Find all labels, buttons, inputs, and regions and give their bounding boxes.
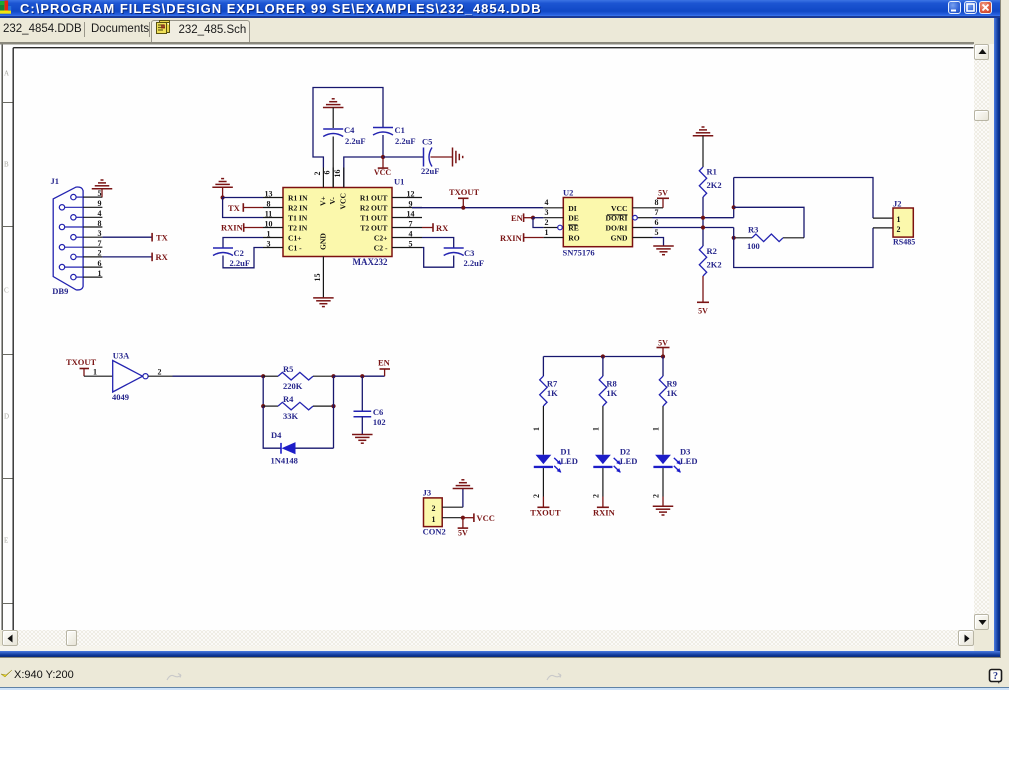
svg-text:8: 8 (655, 198, 659, 207)
svg-text:C5: C5 (422, 136, 432, 146)
svg-text:1N4148: 1N4148 (271, 455, 298, 465)
wire D3 down (662, 468, 664, 496)
svg-text:1K: 1K (606, 388, 617, 398)
ground at U2 GND (653, 237, 664, 245)
svg-text:5V: 5V (658, 338, 668, 347)
svg-text:R2: R2 (707, 246, 717, 256)
wire junction to pin11 (223, 197, 263, 217)
svg-text:3: 3 (545, 208, 549, 217)
U2 right pin stubs (633, 206, 653, 208)
svg-text:TXOUT: TXOUT (66, 357, 97, 367)
power 5V at U2 pin8 (653, 206, 664, 208)
svg-text:R1 OUT: R1 OUT (360, 193, 388, 202)
svg-text:U2: U2 (563, 187, 573, 197)
svg-text:LED: LED (680, 455, 697, 465)
svg-text:C6: C6 (373, 407, 383, 417)
connector J2 pin stubs (873, 217, 893, 219)
svg-text:2.2uF: 2.2uF (345, 136, 366, 146)
svg-text:1: 1 (652, 427, 661, 431)
junction R4 left (261, 404, 265, 408)
wire left branch down (262, 376, 264, 406)
U2 RE overline (568, 223, 577, 225)
LED D2 (595, 454, 611, 463)
svg-text:7: 7 (655, 208, 659, 217)
wire R7 to D1 (542, 406, 544, 455)
U3A bubble (143, 373, 148, 378)
capacitor C5 (423, 147, 425, 166)
svg-text:VCC: VCC (374, 168, 392, 177)
junction loop upper (732, 205, 736, 209)
svg-text:1: 1 (545, 227, 549, 236)
svg-text:2: 2 (432, 504, 436, 513)
svg-text:EN: EN (378, 357, 391, 367)
wire R2 to 5V (702, 276, 704, 302)
op-amp U1 MAX232 body (283, 187, 392, 256)
connector J1 pin circles left column (59, 204, 64, 209)
svg-text:U3A: U3A (113, 350, 130, 360)
svg-text:2.2uF: 2.2uF (230, 258, 251, 268)
wire right branch (333, 376, 335, 448)
U2 pin2 bubble (558, 225, 563, 230)
svg-text:5: 5 (98, 188, 102, 197)
wire J3 pin2 to ground (462, 488, 464, 507)
svg-text:1: 1 (267, 229, 271, 238)
svg-text:2: 2 (897, 225, 901, 234)
svg-text:RX: RX (436, 222, 449, 232)
svg-text:11: 11 (265, 209, 273, 218)
svg-text:4: 4 (98, 209, 102, 218)
status bar (0, 658, 1009, 687)
op-amp U2 SN75176 body (563, 197, 632, 246)
svg-text:5V: 5V (458, 528, 468, 537)
wire V+ loop top (313, 87, 383, 167)
U1 right pin stubs (392, 196, 422, 198)
wire rail to R8 (602, 356, 604, 376)
junction J3 pin1 (461, 515, 465, 519)
svg-text:C1+: C1+ (288, 233, 302, 242)
svg-text:100: 100 (747, 240, 760, 250)
svg-text:4049: 4049 (112, 392, 129, 402)
ground below D3 (662, 496, 664, 506)
svg-text:2: 2 (98, 248, 102, 257)
svg-text:DE: DE (568, 213, 579, 222)
ground at U1 pin 15 (313, 296, 334, 298)
svg-text:1: 1 (592, 427, 601, 431)
wire to D4 (263, 406, 281, 448)
svg-text:2: 2 (592, 494, 601, 498)
ground above J3 (453, 487, 474, 489)
wire C6 to ground (361, 416, 363, 434)
svg-text:D: D (4, 412, 9, 420)
svg-text:VCC: VCC (611, 203, 627, 212)
junction rail D3 (661, 354, 665, 358)
svg-text:C1: C1 (395, 125, 405, 135)
svg-text:3: 3 (98, 229, 102, 238)
svg-text:8: 8 (267, 199, 271, 208)
svg-text:7: 7 (409, 219, 413, 228)
svg-text:R3: R3 (748, 224, 758, 234)
LED D1 (536, 454, 552, 463)
port TX (151, 232, 153, 241)
junction at pin13 (221, 195, 225, 199)
svg-text:DO/RI: DO/RI (606, 223, 628, 232)
wire rail to R9 (662, 356, 664, 376)
svg-text:?: ? (993, 671, 998, 682)
wire U1 pin9 to U2 DI (412, 206, 543, 208)
connector J1 pin lines (83, 196, 102, 198)
svg-text:22uF: 22uF (421, 166, 439, 176)
wire J1 pin2 to RX (102, 255, 151, 257)
junction EN (531, 215, 535, 219)
wire VCC junction to C5 (383, 156, 424, 158)
svg-text:12: 12 (407, 189, 415, 198)
svg-text:1: 1 (432, 514, 436, 523)
svg-text:1: 1 (93, 367, 97, 376)
svg-text:8: 8 (98, 218, 102, 227)
svg-text:R7: R7 (547, 378, 558, 388)
svg-text:LED: LED (560, 455, 577, 465)
capacitor C1 (373, 126, 393, 128)
diode D4 (280, 442, 282, 453)
resistor R5 (263, 375, 278, 377)
svg-text:C1 -: C1 - (288, 243, 302, 252)
connector J3 body (424, 497, 443, 526)
junction R5 right (331, 374, 335, 378)
svg-text:R1: R1 (707, 166, 717, 176)
svg-text:4: 4 (409, 229, 413, 238)
svg-text:CON2: CON2 (423, 526, 446, 536)
svg-text:E: E (4, 536, 8, 544)
U1 top pin stubs (322, 167, 324, 187)
svg-text:1K: 1K (547, 388, 558, 398)
wire pin16 to VCC junction (344, 157, 383, 188)
svg-text:1: 1 (98, 268, 102, 277)
wire R5 to EN (334, 375, 385, 377)
svg-text:RXIN: RXIN (500, 232, 523, 242)
svg-text:RXIN: RXIN (593, 507, 616, 517)
wire loop top (734, 177, 873, 218)
svg-text:V+: V+ (318, 196, 327, 206)
svg-text:VCC: VCC (477, 513, 495, 523)
svg-text:R5: R5 (283, 364, 293, 374)
U1 left pin stubs (263, 196, 283, 198)
capacitor C6 (361, 376, 363, 411)
wire C5 to ground (431, 156, 453, 158)
svg-text:220K: 220K (283, 381, 303, 391)
ground above R1 (693, 134, 714, 136)
port VCC at J3 (463, 516, 474, 518)
svg-text:C3: C3 (464, 248, 474, 258)
svg-text:D4: D4 (271, 430, 282, 440)
svg-text:RO: RO (568, 233, 579, 242)
ground above TX junction (212, 186, 233, 188)
svg-text:RS485: RS485 (893, 237, 915, 246)
svg-text:D1: D1 (560, 446, 570, 456)
port RX at U1 (422, 226, 433, 228)
junction rail D2 (601, 354, 605, 358)
svg-text:J2: J2 (893, 198, 902, 208)
U2 left pin stubs (543, 206, 563, 208)
LED D3 (655, 454, 671, 463)
svg-text:2K2: 2K2 (707, 180, 722, 190)
resistor R9 (659, 376, 666, 406)
svg-text:T2 OUT: T2 OUT (360, 223, 387, 232)
svg-text:6: 6 (323, 170, 332, 174)
svg-text:A: A (4, 69, 9, 77)
wire R8 to D2 (602, 406, 604, 455)
connector J1 DB9 body (53, 186, 83, 289)
J3 pin1 stub (442, 516, 463, 518)
port TXOUT below D1 (542, 496, 544, 507)
svg-text:5V: 5V (658, 188, 668, 197)
junction TXOUT (461, 205, 465, 209)
svg-text:5: 5 (655, 227, 659, 236)
sheet inner border (13, 46, 973, 48)
svg-text:T2 IN: T2 IN (288, 223, 308, 232)
svg-text:TXOUT: TXOUT (449, 187, 480, 197)
U2 pin7 bubble (633, 215, 638, 220)
svg-text:GND: GND (611, 233, 628, 242)
connector J1 pin circles right column (71, 194, 76, 199)
junction at VCC (381, 154, 385, 158)
svg-text:2: 2 (652, 494, 661, 498)
resistor R3 (734, 236, 752, 238)
capacitor C3 loop (422, 237, 454, 247)
wire U2 pin7 to rail (653, 216, 734, 218)
U3A pin2 (148, 375, 172, 377)
resistor R4 (263, 405, 278, 407)
svg-text:RXIN: RXIN (221, 222, 244, 232)
svg-text:R1 IN: R1 IN (288, 193, 308, 202)
svg-text:J1: J1 (51, 176, 60, 186)
U1 bottom pin 15 (322, 256, 324, 297)
svg-text:VCC: VCC (339, 193, 348, 209)
ground right of C5 (452, 147, 454, 166)
junction R2 rail (701, 225, 705, 229)
svg-text:T1 IN: T1 IN (288, 213, 308, 222)
svg-text:DI: DI (568, 203, 576, 212)
wire pin2 to R5 (173, 375, 264, 377)
svg-text:R2 OUT: R2 OUT (360, 203, 388, 212)
wire junction to pin13 (223, 196, 263, 198)
wire R1 to R2 (702, 197, 704, 246)
connector J2 body (893, 208, 913, 237)
svg-text:15: 15 (313, 273, 322, 281)
svg-text:7: 7 (98, 239, 102, 248)
ground above C4 (323, 106, 344, 108)
junction C6 (360, 374, 364, 378)
wire rail down to loop bottom (734, 227, 873, 267)
svg-text:9: 9 (409, 199, 413, 208)
wire rail up to loop top (733, 177, 735, 217)
U2 DO/RI overline (607, 213, 628, 215)
svg-text:16: 16 (333, 169, 342, 177)
resistor R1 (699, 167, 706, 197)
svg-text:R2 IN: R2 IN (288, 203, 308, 212)
svg-text:33K: 33K (283, 411, 299, 421)
LED supply rail (543, 355, 663, 357)
port RX (151, 252, 153, 261)
power port VCC (382, 157, 384, 168)
svg-text:D3: D3 (680, 446, 690, 456)
U3A pin1 (84, 375, 113, 377)
capacitor C2 loop (223, 237, 263, 247)
svg-text:4: 4 (545, 198, 549, 207)
power 5V below J3 (462, 517, 464, 527)
inverter U3A triangle (113, 360, 143, 392)
svg-text:C4: C4 (344, 125, 355, 135)
svg-text:2: 2 (313, 171, 322, 175)
resistor R7 (540, 376, 547, 406)
wire inner top (734, 207, 804, 238)
svg-text:102: 102 (373, 417, 386, 427)
J3 pin2 stub (442, 506, 463, 508)
svg-text:14: 14 (407, 209, 415, 218)
svg-text:TX: TX (156, 232, 169, 242)
wire R9 to D3 (662, 406, 664, 455)
svg-text:DB9: DB9 (52, 285, 68, 295)
svg-text:2: 2 (158, 367, 162, 376)
svg-text:SN75176: SN75176 (563, 247, 595, 257)
wire rail to R7 (542, 356, 544, 376)
svg-text:3: 3 (267, 239, 271, 248)
svg-text:GND: GND (318, 232, 327, 249)
svg-text:1K: 1K (667, 388, 678, 398)
svg-text:T1 OUT: T1 OUT (360, 213, 387, 222)
svg-text:1: 1 (532, 427, 541, 431)
svg-text:2K2: 2K2 (707, 259, 722, 269)
svg-text:1: 1 (897, 214, 901, 223)
port RXIN below D2 (602, 496, 604, 507)
junction R5 left (261, 374, 265, 378)
svg-text:RX: RX (156, 252, 169, 262)
svg-text:R8: R8 (606, 378, 616, 388)
svg-text:EN: EN (511, 213, 524, 223)
ground at J1 pin 5 (101, 188, 103, 196)
wire C1 to VCC junction (382, 135, 384, 157)
svg-text:9: 9 (98, 199, 102, 208)
svg-text:5: 5 (409, 239, 413, 248)
svg-text:2.2uF: 2.2uF (395, 136, 416, 146)
sheet ruler ticks (2, 101, 13, 103)
junction R1 rail (701, 215, 705, 219)
wire J1 pin3 to TX (102, 236, 151, 238)
wire C4 to pin6 (332, 136, 334, 187)
svg-text:2: 2 (532, 494, 541, 498)
svg-text:J3: J3 (423, 487, 432, 497)
svg-text:5V: 5V (698, 306, 708, 315)
svg-text:LED: LED (620, 455, 637, 465)
resistor R2 (699, 246, 706, 276)
sheet outer border (1, 44, 3, 630)
svg-text:MAX232: MAX232 (353, 257, 388, 267)
junction R4 right (331, 404, 335, 408)
svg-text:C2+: C2+ (374, 233, 388, 242)
svg-text:C: C (4, 286, 9, 294)
svg-text:R4: R4 (283, 394, 294, 404)
svg-text:10: 10 (265, 219, 273, 228)
svg-text:6: 6 (655, 217, 659, 226)
capacitor C4 (323, 128, 343, 130)
svg-text:D2: D2 (620, 446, 630, 456)
wire U2 pin6 to rail (653, 226, 734, 228)
svg-text:V-: V- (328, 196, 337, 204)
svg-text:2: 2 (545, 217, 549, 226)
svg-text:6: 6 (98, 258, 102, 267)
svg-text:C2: C2 (234, 248, 244, 258)
svg-text:R9: R9 (667, 378, 677, 388)
svg-text:2.2uF: 2.2uF (464, 258, 485, 268)
svg-text:C2 -: C2 - (374, 243, 388, 252)
svg-text:TXOUT: TXOUT (530, 507, 561, 517)
ground below C6 (352, 433, 373, 435)
resistor R8 (599, 376, 606, 406)
svg-text:U1: U1 (394, 176, 404, 186)
wire D1 down (542, 468, 544, 496)
svg-text:B: B (4, 160, 9, 168)
wire D2 down (602, 468, 604, 496)
svg-text:13: 13 (265, 189, 273, 198)
wire EN to RE (533, 217, 543, 227)
junction loop lower (732, 235, 736, 239)
svg-text:TX: TX (228, 202, 241, 212)
scrollbars (989, 44, 994, 647)
